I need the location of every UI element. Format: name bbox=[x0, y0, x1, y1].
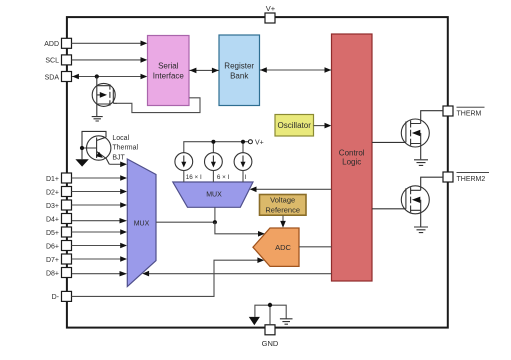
wire D5+ to input MUX bbox=[72, 229, 128, 235]
svg-text:D2+: D2+ bbox=[46, 189, 59, 196]
wire D1+ to input MUX bbox=[72, 175, 128, 181]
wire D3+ to input MUX bbox=[72, 202, 128, 208]
svg-text:D-: D- bbox=[52, 294, 60, 301]
svg-text:D4+: D4+ bbox=[46, 216, 59, 223]
junction GND node bbox=[268, 303, 272, 307]
wire Serial Interface to Register Bank (bidirectional) bbox=[189, 68, 219, 74]
svg-text:V+: V+ bbox=[255, 140, 264, 147]
pad SDA bbox=[45, 72, 72, 82]
current source I2 6xI bbox=[205, 153, 230, 182]
ground symbol at Q2 source bbox=[414, 160, 428, 166]
svg-text:D3+: D3+ bbox=[46, 203, 59, 210]
svg-text:D6+: D6+ bbox=[46, 243, 59, 250]
junction current source rail b bbox=[241, 140, 245, 144]
wire Control Logic to current MUX select bbox=[250, 187, 332, 193]
block ADC bbox=[253, 228, 299, 266]
wire Voltage Reference to ADC bbox=[280, 216, 286, 228]
svg-text:ADC: ADC bbox=[275, 243, 291, 252]
svg-text:Bank: Bank bbox=[230, 71, 249, 80]
wire D6+ to input MUX bbox=[72, 243, 128, 249]
svg-text:Reference: Reference bbox=[265, 206, 300, 215]
wire SCL to Serial Interface bbox=[72, 57, 148, 63]
svg-text:Interface: Interface bbox=[153, 71, 185, 80]
substrate arrow at GND bbox=[249, 317, 260, 325]
block Voltage Reference bbox=[260, 195, 307, 216]
ground symbol at GND node bbox=[280, 319, 293, 324]
wire D8+ to input MUX bbox=[72, 271, 127, 276]
svg-text:6 × I: 6 × I bbox=[217, 174, 230, 181]
svg-text:SDA: SDA bbox=[45, 74, 60, 81]
block Control Logic bbox=[332, 34, 373, 281]
svg-text:THERM2: THERM2 bbox=[457, 176, 486, 183]
pad THERM bbox=[443, 106, 485, 118]
svg-text:SCL: SCL bbox=[45, 58, 59, 65]
ground symbol at Q1 source bbox=[92, 117, 103, 121]
substrate arrow below BJT bbox=[75, 159, 88, 166]
pad D8+ bbox=[46, 268, 72, 278]
wire V+ rail of current sources bbox=[184, 142, 249, 153]
pad SCL bbox=[45, 55, 71, 65]
pad D7+ bbox=[46, 254, 72, 264]
block Register Bank bbox=[219, 35, 260, 106]
wire SDA to Serial Interface (bidirectional) bbox=[72, 74, 147, 80]
svg-text:GND: GND bbox=[262, 339, 279, 348]
wire GND internal node bbox=[255, 305, 286, 325]
pad D5+ bbox=[46, 227, 72, 237]
svg-text:D8+: D8+ bbox=[46, 270, 59, 277]
junction current source rail a bbox=[211, 140, 215, 144]
svg-text:MUX: MUX bbox=[206, 192, 222, 199]
transistor Q4 local thermal BJT bbox=[82, 131, 111, 164]
svg-text:Serial: Serial bbox=[158, 61, 179, 70]
svg-text:D1+: D1+ bbox=[46, 176, 59, 183]
block current MUX (small) bbox=[173, 182, 253, 207]
pad D3+ bbox=[46, 200, 72, 210]
wire Oscillator to Control Logic bbox=[314, 123, 332, 129]
junction BJT base-collector tie bbox=[80, 146, 84, 150]
wire D4+ to input MUX bbox=[72, 218, 127, 223]
svg-text:ADD: ADD bbox=[44, 41, 59, 48]
junction MUX outputs bbox=[213, 220, 217, 224]
svg-text:Control: Control bbox=[339, 148, 365, 157]
svg-text:MUX: MUX bbox=[134, 221, 150, 228]
svg-text:Voltage: Voltage bbox=[270, 196, 295, 205]
pad D6+ bbox=[46, 241, 72, 251]
current source I1 16xI bbox=[175, 153, 202, 182]
wire ADD to Serial Interface bbox=[72, 41, 148, 47]
wire current MUX output down bbox=[214, 207, 216, 222]
svg-text:Local: Local bbox=[112, 135, 129, 142]
wire D- to ADC minus input bbox=[72, 257, 265, 296]
wire D2+ to input MUX bbox=[72, 189, 128, 195]
wire Register Bank to Control Logic (bidirectional) bbox=[260, 67, 332, 73]
block Oscillator bbox=[275, 115, 314, 137]
svg-text:Oscillator: Oscillator bbox=[278, 121, 312, 130]
svg-text:V+: V+ bbox=[266, 4, 276, 13]
transistor Q1 SDA clamp MOSFET bbox=[92, 77, 117, 117]
wire Control Logic to input MUX select bbox=[142, 271, 331, 277]
transistor Q2 THERM output MOSFET bbox=[372, 111, 443, 160]
wire input MUX output to junction bbox=[156, 221, 215, 223]
svg-text:I: I bbox=[245, 174, 247, 181]
pad D1+ bbox=[46, 173, 72, 183]
svg-text:Register: Register bbox=[224, 61, 254, 70]
svg-text:BJT: BJT bbox=[112, 154, 125, 161]
svg-text:Thermal: Thermal bbox=[112, 145, 138, 152]
pad GND bbox=[262, 325, 279, 348]
pad D4+ bbox=[46, 214, 72, 224]
svg-text:D5+: D5+ bbox=[46, 230, 59, 237]
pad THERM2 bbox=[443, 172, 489, 183]
wire ADC output to Control Logic bbox=[299, 246, 332, 248]
pad ADD bbox=[44, 38, 71, 48]
svg-text:Logic: Logic bbox=[342, 158, 361, 167]
label Local Thermal BJT bbox=[112, 135, 138, 162]
wire D7+ to input MUX bbox=[72, 256, 128, 262]
svg-text:D7+: D7+ bbox=[46, 257, 59, 264]
wire BJT emitter to input MUX bbox=[109, 162, 127, 168]
wire junction to ADC plus input bbox=[215, 222, 265, 236]
current source I3 I bbox=[234, 153, 252, 182]
wire Q1 gate to Serial Interface bbox=[117, 98, 200, 113]
chip outer boundary bbox=[67, 17, 448, 328]
block Serial Interface bbox=[148, 36, 190, 106]
pad D- bbox=[52, 291, 72, 301]
svg-text:16 × I: 16 × I bbox=[186, 174, 202, 181]
junction SDA node bbox=[95, 74, 99, 78]
pad D2+ bbox=[46, 187, 72, 197]
ground symbol at Q3 source bbox=[414, 227, 428, 233]
block input MUX (big) bbox=[127, 159, 156, 287]
node V+ terminal open circle bbox=[248, 140, 252, 144]
transistor Q3 THERM2 output MOSFET bbox=[372, 177, 443, 227]
svg-text:THERM: THERM bbox=[457, 111, 482, 118]
pad V+ bbox=[265, 4, 276, 23]
